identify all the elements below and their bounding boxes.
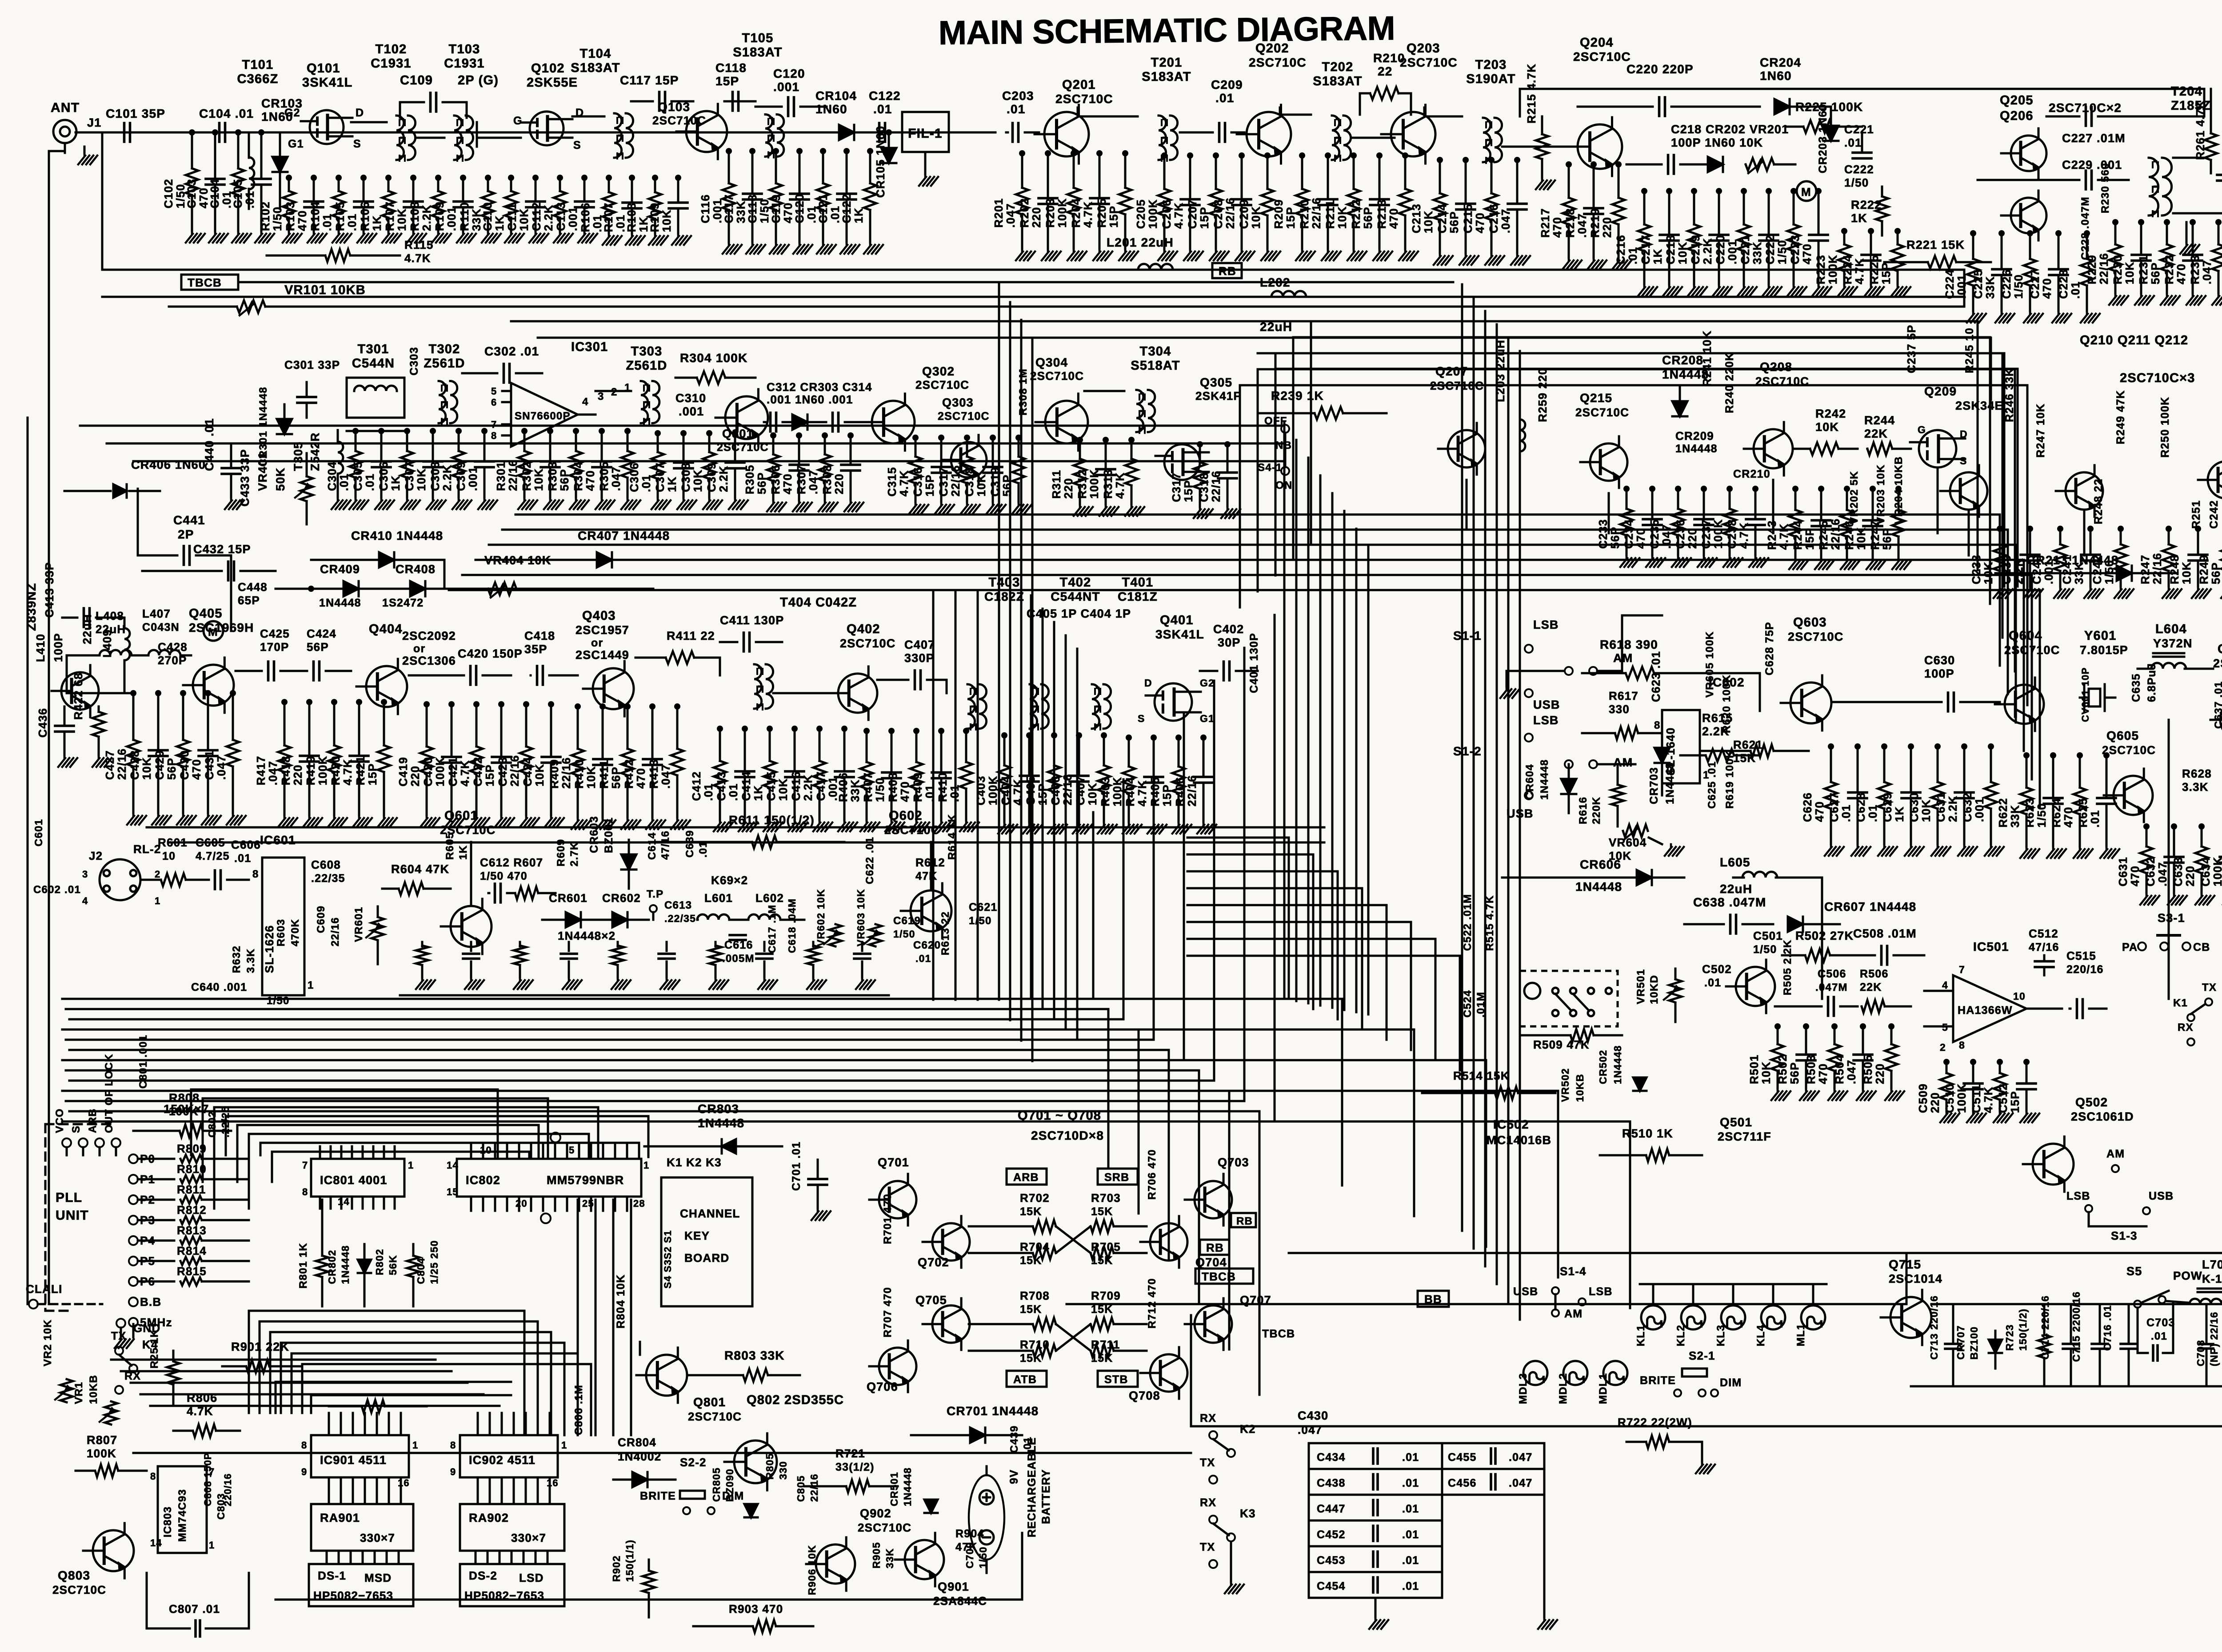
resistor R422 (92, 712, 105, 737)
svg-text:C104 .01: C104 .01 (199, 107, 254, 120)
svg-text:15: 15 (447, 1186, 459, 1197)
capacitor band5 (861, 942, 863, 951)
lamp KL4 (1761, 1305, 1785, 1329)
potentiometer VR101 (237, 300, 265, 313)
svg-text:L202: L202 (1260, 275, 1291, 289)
svg-text:.047: .047 (1298, 1423, 1322, 1437)
svg-text:C456: C456 (1448, 1477, 1477, 1489)
svg-text:R604 47K: R604 47K (391, 862, 449, 876)
svg-text:1: 1 (561, 1440, 567, 1451)
svg-text:HP5082−7653: HP5082−7653 (464, 1589, 544, 1602)
svg-text:S518AT: S518AT (1131, 359, 1180, 373)
svg-text:T203: T203 (1475, 58, 1507, 72)
svg-text:R903 470: R903 470 (729, 1602, 783, 1616)
svg-text:35P: 35P (524, 642, 548, 656)
capacitor C227 (2086, 107, 2092, 126)
diode CR213 (2117, 566, 2132, 581)
wire bus (292, 1353, 578, 1355)
resistor R408 (915, 731, 918, 762)
svg-text:R215 4.7K: R215 4.7K (1525, 64, 1538, 124)
svg-text:LSB: LSB (2066, 1190, 2090, 1202)
capacitor C402 (1224, 662, 1230, 680)
pin stub DS1 (398, 1551, 400, 1564)
block IC801 (311, 1159, 404, 1197)
wire bus (133, 460, 1284, 463)
svg-text:R106: R106 (358, 201, 372, 231)
svg-text:2SC710C: 2SC710C (688, 1410, 742, 1423)
svg-text:S: S (70, 1125, 82, 1133)
svg-text:C804: C804 (415, 1257, 427, 1284)
svg-text:.01: .01 (1402, 1503, 1419, 1515)
svg-text:R209: R209 (1272, 199, 1285, 229)
resistor R409 (577, 706, 579, 749)
svg-text:RB: RB (1206, 1241, 1224, 1254)
svg-text:C512: C512 (2029, 927, 2058, 940)
svg-text:R410: R410 (572, 759, 586, 789)
svg-text:Q405: Q405 (189, 607, 223, 621)
svg-text:470: 470 (2062, 807, 2075, 828)
svg-text:K-10: K-10 (2202, 1272, 2222, 1285)
svg-text:1K: 1K (1851, 211, 1867, 225)
svg-text:.01: .01 (243, 191, 256, 208)
svg-text:330×7: 330×7 (511, 1531, 546, 1544)
resistor R419 (333, 702, 336, 746)
svg-text:.22/35: .22/35 (664, 913, 696, 924)
resistor C224 (1972, 233, 1974, 259)
pin stub DS2 (523, 1551, 525, 1564)
resistor band5 (421, 942, 424, 946)
svg-text:Q606: Q606 (2218, 642, 2222, 656)
wire bus (111, 1359, 436, 1361)
transistor Q803 (93, 1530, 134, 1571)
label 10K R804b (639, 1342, 641, 1355)
svg-text:C508 .01M: C508 .01M (1853, 927, 1917, 940)
svg-text:R302: R302 (520, 461, 533, 491)
svg-text:C407: C407 (1074, 776, 1087, 806)
svg-text:1: 1 (643, 1160, 649, 1171)
resistor R807 (95, 1464, 118, 1477)
svg-text:330×7: 330×7 (360, 1531, 395, 1544)
svg-text:20: 20 (516, 1198, 528, 1209)
resistor C633 (2201, 826, 2203, 846)
resistor R110 (487, 178, 489, 191)
capacitor C218 (1668, 155, 1674, 174)
resistor C412 (719, 729, 721, 761)
svg-text:T303: T303 (631, 344, 663, 359)
svg-text:R409: R409 (911, 772, 924, 802)
svg-text:Q715: Q715 (1889, 1257, 1921, 1271)
svg-text:CR104: CR104 (815, 89, 857, 103)
label RB small (1231, 1213, 1256, 1227)
svg-text:2SC1014: 2SC1014 (1889, 1272, 1942, 1285)
diode CR203 (1823, 126, 1838, 141)
capacitor R246 (1872, 489, 1874, 520)
terminal P1 (129, 1175, 138, 1184)
svg-text:R809: R809 (177, 1142, 207, 1155)
capacitor C122 (879, 123, 885, 142)
svg-text:10K: 10K (1676, 242, 1689, 264)
svg-text:56P: 56P (755, 472, 768, 495)
pin stub IC801 (319, 1146, 321, 1159)
svg-text:4: 4 (1942, 979, 1948, 991)
svg-text:C317: C317 (937, 467, 950, 497)
svg-text:SRB: SRB (1104, 1171, 1129, 1184)
capacitor band5 (763, 942, 766, 951)
svg-text:CR601: CR601 (549, 891, 587, 905)
svg-text:R219: R219 (1588, 208, 1602, 238)
svg-text:R625: R625 (2076, 798, 2090, 828)
svg-text:C632: C632 (2144, 857, 2157, 886)
pin stub IC802 (482, 1144, 484, 1159)
wire right band2 (1466, 480, 1468, 529)
diode CR501b (924, 1500, 938, 1513)
battery B901 (969, 1475, 1004, 1560)
svg-text:16: 16 (547, 1477, 559, 1488)
amplifier IC501 HA1366W (1953, 975, 2026, 1042)
pin stub IC801 (394, 1146, 396, 1159)
svg-text:100K: 100K (316, 756, 329, 786)
svg-text:15P: 15P (923, 475, 936, 497)
pin stub IC901 (340, 1477, 342, 1504)
inductor L605 (1742, 872, 1777, 878)
svg-text:C119: C119 (769, 194, 783, 223)
resistor R509 (1571, 1029, 1594, 1041)
svg-text:2SC710D×8: 2SC710D×8 (1031, 1129, 1104, 1142)
capacitor C309 (734, 433, 736, 463)
svg-text:CR203 1N60: CR203 1N60 (1817, 104, 1829, 173)
transistor Q502 (2033, 1144, 2074, 1185)
net ARB box (1007, 1169, 1047, 1185)
svg-text:C640 .001: C640 .001 (191, 981, 247, 994)
svg-text:C429: C429 (153, 750, 166, 780)
svg-text:R514 15K: R514 15K (1453, 1069, 1510, 1082)
wire bus (1343, 511, 1346, 1010)
svg-text:C628: C628 (1854, 792, 1867, 822)
svg-text:Y372N: Y372N (2153, 637, 2193, 650)
resistor R618 (1626, 667, 1654, 679)
svg-text:330: 330 (777, 1461, 789, 1480)
pin stub IC802 (494, 1144, 496, 1159)
svg-text:10K: 10K (415, 468, 428, 491)
svg-text:C104: C104 (208, 179, 221, 208)
wire bus (1187, 870, 1338, 873)
resistor R229 (2114, 222, 2117, 244)
wire bus (80, 425, 1284, 427)
svg-text:33K: 33K (884, 1548, 895, 1568)
svg-text:C318: C318 (963, 467, 976, 497)
svg-text:R803 33K: R803 33K (724, 1349, 785, 1362)
svg-text:C209: C209 (1237, 199, 1251, 229)
capacitor C434 (1309, 1443, 1442, 1469)
svg-text:Q603: Q603 (1793, 615, 1827, 630)
wire bus (1519, 351, 1521, 1320)
svg-text:SL-1640: SL-1640 (1664, 727, 1677, 775)
svg-text:C807 .01: C807 .01 (169, 1602, 220, 1616)
svg-text:C113: C113 (554, 202, 567, 231)
svg-text:C703: C703 (2146, 1317, 2175, 1329)
diode CR406 (113, 484, 127, 498)
svg-text:T202: T202 (1322, 60, 1354, 74)
svg-text:4.7/25: 4.7/25 (196, 850, 230, 862)
resistor R239 (1315, 407, 1343, 419)
svg-text:C617 .1M: C617 .1M (766, 905, 778, 953)
net TBCB box (181, 275, 238, 290)
pin stub IC801 (340, 1146, 343, 1159)
svg-text:C430: C430 (178, 750, 191, 780)
wire bus (1076, 649, 1079, 1040)
svg-text:R25 1K: R25 1K (148, 1329, 160, 1369)
svg-text:14: 14 (447, 1160, 459, 1171)
svg-text:C713 220/16: C713 220/16 (1928, 1295, 1940, 1360)
resistor R615 (1706, 749, 1734, 762)
svg-text:CHANNEL: CHANNEL (680, 1207, 740, 1220)
svg-text:Q601: Q601 (444, 809, 478, 823)
svg-text:2.2K: 2.2K (440, 464, 454, 491)
svg-text:CR803: CR803 (698, 1102, 739, 1116)
svg-text:.01: .01 (915, 953, 931, 964)
transistor Q702 (932, 1223, 970, 1261)
svg-text:IC803: IC803 (162, 1506, 174, 1537)
diode CR602 (612, 912, 627, 927)
svg-text:3SK41L: 3SK41L (302, 76, 353, 90)
svg-text:.001: .001 (445, 207, 458, 231)
transistor Q605 (2114, 776, 2153, 815)
capacitor C236 (1703, 489, 1705, 519)
resistor R104 (338, 178, 340, 191)
wire bus (1187, 938, 1435, 940)
wire bus (1473, 298, 1475, 1249)
capacitor R504 (1862, 1026, 1864, 1054)
svg-text:.01: .01 (1866, 804, 1879, 822)
svg-text:14: 14 (150, 1537, 162, 1548)
svg-text:220K: 220K (1591, 797, 1603, 824)
svg-text:28: 28 (633, 1198, 645, 1209)
resistor R211 (1353, 156, 1355, 189)
svg-text:10K: 10K (532, 468, 545, 491)
pin stub IC901t (352, 1413, 354, 1435)
svg-text:1: 1 (408, 1160, 414, 1171)
resistor R242 (1810, 443, 1838, 455)
svg-text:220: 220 (1873, 1063, 1886, 1084)
svg-text:1S2472: 1S2472 (382, 597, 424, 609)
svg-text:C701 .01: C701 .01 (790, 1141, 803, 1191)
svg-text:OUT OF LOCK: OUT OF LOCK (103, 1053, 115, 1133)
capacitor C234 (1651, 489, 1654, 519)
svg-text:C421: C421 (446, 757, 460, 786)
svg-text:Q605: Q605 (2106, 729, 2139, 742)
pot VR501 (1669, 979, 1682, 1002)
svg-text:10KB: 10KB (1574, 1073, 1586, 1102)
svg-text:R505 2.2K: R505 2.2K (1782, 939, 1794, 995)
svg-text:CR701 1N4448: CR701 1N4448 (947, 1404, 1039, 1418)
svg-text:C206: C206 (1160, 199, 1173, 229)
svg-text:.047: .047 (1845, 1060, 1858, 1084)
svg-text:C422: C422 (471, 757, 484, 786)
svg-text:T105: T105 (742, 31, 774, 45)
svg-text:470: 470 (296, 210, 309, 231)
svg-text:R251: R251 (2190, 500, 2202, 529)
svg-text:R701 470: R701 470 (882, 1193, 894, 1244)
svg-text:R210: R210 (1298, 199, 1311, 229)
svg-text:C454: C454 (1317, 1580, 1346, 1592)
pin stub IC801 (330, 1146, 332, 1159)
diode CR701 (970, 1428, 985, 1443)
svg-text:2: 2 (155, 869, 160, 880)
svg-text:C715 2200/16: C715 2200/16 (2070, 1291, 2082, 1362)
wire bus (1065, 635, 1067, 1030)
svg-text:C102: C102 (162, 179, 175, 208)
svg-text:L201 22uH: L201 22uH (1107, 235, 1174, 249)
svg-text:R632: R632 (231, 946, 243, 973)
svg-text:R502 27K: R502 27K (1795, 929, 1854, 942)
svg-text:R620 100K: R620 100K (1721, 674, 1733, 733)
resistor R622 (2026, 755, 2028, 788)
svg-text:22/16: 22/16 (115, 748, 128, 780)
svg-text:C420: C420 (421, 757, 435, 786)
svg-text:DS-1: DS-1 (318, 1569, 346, 1582)
svg-text:15P: 15P (483, 764, 496, 786)
transistor Q708 (1150, 1354, 1187, 1392)
resistor R421 (383, 702, 385, 746)
svg-text:IC901 4511: IC901 4511 (320, 1453, 387, 1467)
svg-text:T.P: T.P (647, 888, 663, 900)
svg-text:1/50: 1/50 (873, 778, 887, 802)
svg-text:C207: C207 (1186, 199, 1199, 229)
transistor Q210 (1950, 472, 1987, 510)
capacitor C506 (1828, 997, 1834, 1016)
svg-text:S183AT: S183AT (571, 61, 620, 75)
resistor C220 (1743, 191, 1745, 224)
wire bus (932, 591, 935, 1000)
svg-text:150(1/2): 150(1/2) (2017, 1309, 2029, 1351)
svg-text:C453: C453 (1317, 1554, 1346, 1567)
svg-text:Q901: Q901 (938, 1580, 969, 1593)
wire bus (476, 559, 2024, 561)
svg-text:C105: C105 (231, 179, 244, 208)
transistor Q201 (1044, 112, 1089, 156)
wire bus (1009, 302, 1011, 1020)
svg-text:BRITE: BRITE (640, 1490, 676, 1502)
svg-text:270P: 270P (158, 654, 187, 667)
resistor R621 (1750, 745, 1774, 757)
svg-text:or: or (413, 642, 425, 655)
svg-text:BOARD: BOARD (684, 1251, 729, 1265)
net BB box (1418, 1291, 1449, 1307)
svg-text:S1-3: S1-3 (2111, 1229, 2138, 1242)
svg-text:R723: R723 (2004, 1324, 2015, 1351)
svg-text:R506: R506 (1860, 968, 1889, 980)
capacitor C508 (1882, 946, 1887, 965)
svg-text:R411 22: R411 22 (667, 629, 715, 642)
svg-text:.01: .01 (320, 213, 334, 231)
resistor C414 (769, 729, 771, 761)
svg-text:R308: R308 (820, 465, 834, 495)
svg-text:22K: 22K (1860, 981, 1882, 994)
svg-text:2SC710C: 2SC710C (52, 1583, 106, 1596)
svg-text:CR602: CR602 (602, 891, 641, 905)
svg-text:STB: STB (1104, 1373, 1128, 1386)
capacitor R410 (602, 706, 604, 759)
wire bus (62, 1121, 1275, 1123)
capacitor C713 (1945, 1344, 1961, 1349)
svg-text:.01: .01 (639, 475, 653, 492)
capacitor R105 (363, 178, 365, 201)
wire bus (449, 589, 2040, 591)
svg-text:2SC1306: 2SC1306 (402, 654, 456, 667)
resistor R601 (161, 874, 186, 886)
wire rails mid right (1453, 306, 1964, 308)
svg-text:22/16: 22/16 (2150, 553, 2164, 584)
wire bus (1031, 338, 1034, 1061)
capacitor C629 (1910, 746, 1912, 792)
svg-text:47/16: 47/16 (659, 830, 671, 860)
svg-text:4.7K: 4.7K (458, 760, 472, 786)
resistor C306 (657, 433, 659, 452)
wire bus (1319, 475, 1322, 1006)
svg-text:8: 8 (1654, 719, 1661, 731)
capacitor C420 (451, 704, 453, 757)
resistor R108 (654, 178, 656, 192)
svg-text:2SC1957: 2SC1957 (575, 623, 629, 637)
svg-text:CR409: CR409 (320, 563, 360, 576)
svg-text:R230 560: R230 560 (2099, 163, 2111, 213)
resistor C238 (1999, 529, 2001, 544)
svg-text:Q702: Q702 (918, 1256, 949, 1269)
svg-text:1N4448: 1N4448 (902, 1467, 913, 1506)
svg-text:2SC710C: 2SC710C (858, 1521, 911, 1534)
svg-text:Q801: Q801 (693, 1395, 726, 1409)
capacitor C121 (846, 151, 848, 194)
svg-text:R815: R815 (177, 1265, 207, 1278)
resistor C509 (1946, 1062, 1948, 1073)
transformer T404 (754, 664, 762, 709)
svg-text:1/50: 1/50 (2102, 560, 2116, 584)
resistor R514 (1495, 1087, 1518, 1099)
svg-text:2SK34E: 2SK34E (1955, 399, 2003, 412)
svg-text:1N4448: 1N4448 (698, 1116, 744, 1130)
diode CR303 (792, 415, 807, 430)
capacitor C453 (1309, 1546, 1442, 1572)
svg-text:B.B: B.B (140, 1295, 161, 1309)
svg-text:C418: C418 (524, 629, 555, 642)
transistor Q208 (1754, 429, 1793, 468)
wire x-cross2 (1056, 1324, 1091, 1351)
svg-text:C122: C122 (869, 89, 901, 103)
resistor R244 (1867, 443, 1892, 455)
terminal S (79, 1138, 88, 1147)
resistor R115 (325, 249, 350, 262)
svg-text:10: 10 (162, 850, 176, 862)
svg-text:R259 220: R259 220 (1536, 368, 1549, 422)
svg-text:DIM: DIM (722, 1490, 744, 1502)
svg-text:C618 .04M: C618 .04M (786, 898, 798, 953)
svg-text:S5: S5 (2126, 1265, 2142, 1278)
svg-text:C306: C306 (627, 463, 641, 492)
svg-text:.01: .01 (1626, 247, 1639, 264)
svg-text:R603: R603 (275, 919, 287, 946)
wire bus (237, 1124, 539, 1126)
svg-text:C412: C412 (690, 771, 703, 801)
svg-text:470: 470 (1800, 243, 1814, 264)
resistor R225 (1897, 231, 1899, 244)
svg-text:C801 .001: C801 .001 (137, 1034, 149, 1089)
svg-text:C117: C117 (722, 194, 735, 223)
pin stub IC801 (362, 1146, 364, 1159)
svg-text:FIL-1: FIL-1 (908, 126, 943, 141)
pin stub IC802 (542, 1144, 544, 1159)
resistor C626 (1830, 746, 1832, 782)
svg-text:220: 220 (832, 474, 846, 495)
